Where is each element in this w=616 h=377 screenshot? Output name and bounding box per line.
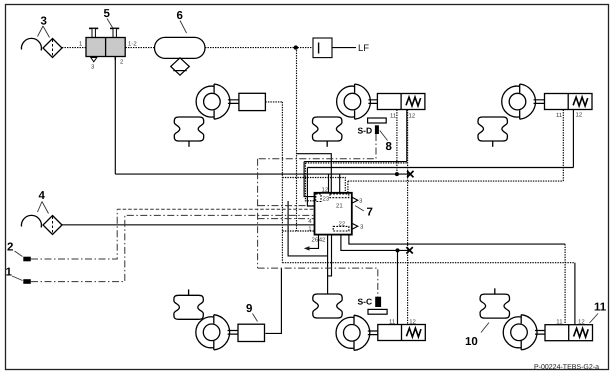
svg-text:P-00224-TEBS-G2-a: P-00224-TEBS-G2-a [534, 364, 599, 371]
stem [492, 141, 494, 147]
wire port 12 top-right into module [307, 168, 314, 207]
wire spring tie drop to module [305, 163, 314, 201]
junction dot bottom line [396, 248, 400, 252]
svg-text:S-C: S-C [358, 297, 373, 307]
wire air bag pair second line [328, 235, 332, 276]
svg-text:6: 6 [177, 10, 183, 22]
connector lines bottom-right [535, 331, 545, 335]
wire module to middle air bag [327, 235, 329, 294]
svg-text:11: 11 [389, 318, 396, 325]
svg-text:11: 11 [556, 112, 563, 119]
svg-text:5: 5 [104, 8, 111, 20]
svg-text:LF: LF [358, 43, 369, 54]
svg-text:4: 4 [39, 190, 46, 202]
port 22 dashed box [333, 226, 349, 231]
svg-text:11: 11 [390, 113, 397, 120]
wire coupling 4 control line [62, 224, 315, 226]
stem [188, 141, 190, 147]
svg-text:10: 10 [465, 336, 478, 348]
svg-text:11: 11 [594, 302, 607, 314]
svg-text:12: 12 [578, 318, 585, 325]
wire supply: reservoir to LF junction [205, 47, 313, 49]
coupling head 4 [21, 215, 41, 227]
actuator top-middle [337, 84, 371, 119]
air bag bottom-middle [313, 294, 342, 318]
svg-text:12: 12 [322, 187, 329, 194]
LF test point [313, 38, 332, 58]
port 23 dashed box [316, 194, 321, 202]
sensor S-D bar [368, 118, 387, 123]
wire air bag side feed [288, 201, 328, 256]
wire chamber tap into module top [282, 178, 345, 193]
cable loom left edge [257, 159, 259, 268]
wire module arrow stub [306, 235, 319, 249]
wire park line tap b into module [339, 174, 341, 193]
cable connector 1 [31, 215, 315, 281]
wire port 11 top-right across [348, 180, 563, 182]
EBS modulator 7 [315, 193, 352, 235]
actuator bottom-right [503, 315, 537, 350]
X plug top [407, 171, 413, 177]
air bag top-left [174, 117, 203, 141]
spring brake cylinder top-middle [377, 94, 425, 110]
connector 2 plug [23, 257, 31, 262]
wire chamber riser vertical [281, 102, 283, 263]
wire long bottom line to port 12 right [282, 262, 575, 264]
stem [326, 141, 328, 147]
svg-text:12: 12 [409, 113, 416, 120]
svg-text:21: 21 [336, 203, 343, 210]
wire spring tie line vertical [407, 110, 409, 325]
wire port 11 bottom-right drop [564, 244, 566, 325]
wire top-left chamber to riser [265, 101, 282, 103]
line filter 3 [43, 39, 62, 58]
air reservoir 6 [155, 37, 206, 58]
wire LF test link [332, 47, 356, 49]
svg-text:12: 12 [576, 112, 583, 119]
X plug bottom [406, 247, 412, 253]
wire supply drop from junction [296, 48, 298, 231]
wire spring tie across [305, 162, 407, 164]
wire port 11 bottom-middle drop [397, 250, 399, 324]
junction dot park line [395, 172, 399, 176]
svg-text:23: 23 [323, 196, 330, 203]
connector lines top-right [534, 100, 545, 104]
wire port 11 top-middle cylinder [396, 110, 398, 175]
coupling head 3 [21, 38, 41, 50]
spring brake cylinder 11 [545, 325, 593, 341]
svg-text:22: 22 [339, 221, 346, 228]
connector 1 plug [23, 279, 31, 284]
sensor S-C head [375, 297, 381, 307]
wire supply into module port 1 [282, 230, 314, 232]
sensor S-C bar [368, 309, 387, 314]
actuator bottom-middle [336, 315, 370, 350]
drain valve [171, 58, 190, 75]
cable connector 2 [31, 209, 117, 259]
svg-text:3: 3 [41, 16, 47, 28]
line filter 4 [43, 216, 62, 235]
actuator top-right [502, 84, 536, 119]
wire port 12 top-right down [572, 110, 574, 168]
cable S-D sensor [258, 134, 376, 159]
connector lines bottom-middle [368, 331, 378, 335]
wire port 12 top-right across [307, 167, 573, 169]
svg-text:S-D: S-D [358, 126, 373, 136]
stem [494, 288, 496, 294]
svg-text:42: 42 [319, 237, 326, 244]
wire module to bottom-right port 11 [349, 235, 565, 245]
wire chamber 9 link [265, 268, 281, 333]
wire port 11 top-right down [562, 110, 564, 182]
wire port 11 top-right into module [347, 181, 349, 193]
svg-text:2: 2 [7, 242, 13, 254]
svg-text:12: 12 [409, 318, 416, 325]
connector lines top-left [228, 100, 239, 104]
air bag bottom-left [174, 295, 203, 319]
wire module to bottom X line [341, 235, 409, 251]
cable loom branch upper [258, 205, 315, 207]
brake chamber 9 [238, 324, 265, 341]
spring brake cylinder top-right [545, 94, 593, 110]
wire into module port 23 [304, 162, 314, 197]
air bag top-middle [313, 117, 342, 141]
arrow head [304, 246, 310, 250]
wire port 12 bottom-right drop [574, 263, 576, 325]
wire supply: park valve to reservoir [126, 47, 155, 49]
svg-text:1: 1 [6, 267, 13, 279]
actuator bottom-left [196, 315, 230, 350]
junction dot supply [294, 45, 298, 49]
exhaust 3 upper [352, 197, 358, 203]
air bag top-right [478, 117, 507, 141]
wire park line across to X [115, 173, 410, 175]
wire park line tap a into module [328, 174, 330, 193]
svg-text:11: 11 [556, 318, 563, 325]
cable loom branch lower [258, 218, 315, 220]
cable S-C sensor [258, 268, 378, 297]
svg-text:8: 8 [386, 141, 393, 153]
wire port 12 top-middle across left [304, 161, 407, 163]
brake chamber top-left [239, 93, 266, 110]
wire supply: filter to park valve [62, 47, 86, 49]
svg-text:9: 9 [246, 303, 252, 315]
wire port 12 top-middle cylinder down [406, 110, 408, 162]
svg-text:7: 7 [367, 207, 373, 219]
connector lines top-middle [368, 100, 377, 104]
actuator top-left [196, 84, 230, 119]
exhaust 3 lower [352, 223, 358, 229]
spring brake cylinder bottom-middle [378, 325, 426, 341]
stem [188, 289, 190, 295]
sensor S-D head [375, 125, 379, 134]
svg-text:1-2: 1-2 [128, 41, 137, 48]
port 21 dashed box [330, 194, 349, 198]
air bag 10 [480, 294, 509, 318]
connector lines bottom-left [228, 331, 238, 335]
wire park valve port 2 down [114, 57, 116, 175]
park release valve 5 [86, 28, 125, 61]
wire supply tap to module port 12 [297, 154, 332, 193]
